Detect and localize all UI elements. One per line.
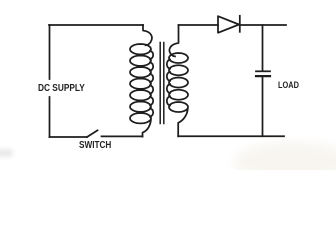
wire: secondary top to diode (179, 24, 219, 26)
wire: DC supply top (49, 24, 143, 26)
transformer T1 primary winding (130, 25, 153, 137)
capacitor C1 top plate (256, 70, 270, 72)
switch SW1 lever (87, 130, 98, 137)
transformer T1 core line right (163, 43, 165, 124)
transformer T1 core line left (159, 43, 161, 124)
wire: DC supply left upper (49, 25, 51, 79)
label LOAD (278, 81, 299, 90)
transformer T1 secondary winding (167, 25, 188, 136)
wire: switch to primary (102, 135, 143, 137)
diode D1 cathode bar (239, 16, 241, 32)
label SWITCH (79, 141, 111, 151)
wire: bottom left to switch (50, 136, 88, 138)
wire: diode to right end (240, 24, 286, 26)
wire: secondary bottom rail (178, 135, 284, 137)
label DC SUPPLY (38, 84, 85, 94)
wire: junction down to capacitor (262, 25, 264, 71)
capacitor C1 bottom plate (256, 75, 270, 77)
diode D1 triangle (218, 16, 239, 33)
wire: DC supply left lower (49, 97, 51, 137)
wire: capacitor to bottom (262, 77, 264, 136)
